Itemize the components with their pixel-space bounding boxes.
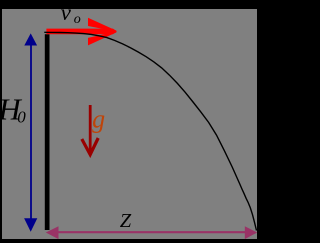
trajectory curve (44, 32, 256, 230)
red shaft with pointed tip (46, 29, 116, 35)
wire: blue shaft (30, 43, 32, 220)
arrowhead up (24, 33, 37, 45)
arrowhead left (46, 226, 59, 239)
svg-text:g: g (92, 105, 105, 134)
arrow v0 (thick red horizontal) (46, 18, 116, 46)
shaft (89, 105, 92, 151)
svg-text:v: v (61, 0, 72, 25)
svg-text:0: 0 (17, 108, 26, 127)
arrow H0 (blue double-headed vertical) (24, 33, 37, 231)
wall (vertical black bar) (45, 34, 50, 230)
arrow g (dark red downward) (82, 105, 98, 155)
shaft (57, 231, 247, 233)
label H0 (0, 92, 26, 127)
open V arrowhead (82, 138, 98, 155)
label v0 (61, 0, 81, 27)
svg-text:Z: Z (120, 210, 132, 232)
arrowhead lower arm (88, 32, 116, 46)
arrow Z (magenta double-headed horizontal) (46, 226, 257, 239)
arrowhead upper arm (88, 18, 116, 32)
svg-text:o: o (74, 12, 81, 27)
arrowhead down (24, 218, 37, 232)
arrowhead right (245, 226, 257, 239)
background field (2, 9, 257, 239)
